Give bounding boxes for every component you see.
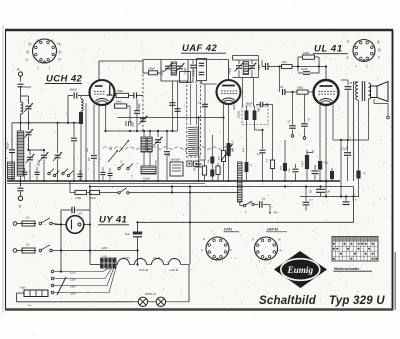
screen capacitor 5T	[326, 67, 348, 95]
svg-text:800pF: 800pF	[70, 89, 78, 92]
rectifier tube UY41	[66, 216, 84, 234]
resistor below L3	[79, 111, 83, 181]
RF coupling capacitor 800pF	[68, 89, 90, 99]
svg-text:ic: ic	[347, 40, 350, 44]
capacitor stub x110	[108, 168, 113, 181]
main chassis bus	[7, 180, 340, 182]
heater chain winding	[116, 259, 189, 265]
wire UAF42 anode to IFT2	[233, 105, 235, 111]
svg-text:1MΩ: 1MΩ	[259, 107, 261, 112]
UY41 anode wire	[55, 224, 67, 226]
coupling capacitor 54pF	[259, 60, 281, 70]
volume potentiometer 0.5M	[222, 105, 235, 182]
Eumig logo diamond	[274, 251, 327, 288]
IF transformer 2 primary lead	[233, 56, 259, 61]
variable capacitor C-RF	[24, 123, 33, 150]
resistor 27k bleeder	[75, 190, 90, 199]
resistor 30k AF stub	[266, 103, 275, 181]
output transformer secondary	[369, 83, 371, 99]
tube socket diagram UAF42 (bottom)	[252, 237, 282, 264]
label 5a7	[131, 176, 134, 182]
switched line B	[70, 181, 75, 193]
svg-text:aₒ: aₒ	[280, 248, 283, 252]
capacitor 800pF left branch	[7, 123, 21, 181]
capacitor N7 on diode lead	[199, 100, 209, 106]
tuning gang dashed shield box	[187, 82, 201, 157]
grid resistor 900	[297, 87, 314, 95]
svg-text:f: f	[49, 66, 50, 70]
heater label UAF42	[170, 268, 179, 272]
capacitor 57 on line	[284, 185, 314, 210]
svg-text:UAF 42: UAF 42	[267, 228, 278, 232]
electrolytic 50+50uF	[170, 159, 183, 177]
value label 30k screen	[289, 168, 291, 172]
IFT2 to detector link 1	[242, 78, 244, 107]
IFT1 variable capacitor 1	[162, 63, 173, 76]
AF line wire	[255, 129, 264, 131]
voltage selector block	[20, 287, 48, 297]
variable resistor arrow a	[108, 150, 118, 162]
svg-text:1kΩ: 1kΩ	[324, 162, 329, 165]
svg-text:UL 41: UL 41	[154, 256, 161, 260]
IFT2 variable capacitor 1	[230, 60, 244, 78]
svg-text:f: f	[367, 65, 368, 69]
IF secondary capacitor pair	[170, 81, 181, 131]
output pentode tube UL41	[314, 80, 339, 105]
svg-text:Schaltbild: Schaltbild	[259, 295, 317, 307]
svg-text:100μF: 100μF	[302, 160, 304, 167]
svg-text:2nF: 2nF	[88, 156, 91, 161]
svg-text:5000: 5000	[195, 165, 197, 171]
svg-text:UCH 42: UCH 42	[46, 74, 83, 85]
output transformer primary	[354, 82, 359, 181]
oscillator coil winding A	[141, 137, 146, 152]
selector wire bottom	[17, 293, 134, 307]
value label 0,1 AVC	[121, 159, 123, 163]
resistor 10k detector 1	[208, 135, 215, 164]
svg-text:1A: 1A	[26, 216, 29, 220]
resistor stub x218	[216, 163, 220, 181]
svg-text:Typ 329 U: Typ 329 U	[329, 295, 385, 307]
variable capacitor oscillator	[154, 130, 163, 181]
osc bus junction line	[104, 130, 177, 132]
svg-text:h: h	[59, 58, 61, 62]
antenna coil L1	[21, 102, 23, 123]
rectifier loop left	[60, 210, 62, 273]
capacitor 2nF at UCH42 cathode	[88, 156, 97, 181]
electrolytic 100uF cathode	[302, 150, 313, 181]
fuse lower 1A	[17, 243, 42, 254]
title Schaltbild	[259, 295, 317, 307]
svg-text:100μF: 100μF	[301, 68, 308, 71]
detector coupling capacitor	[256, 102, 267, 108]
UY41 cathode wire	[84, 224, 90, 226]
svg-text:100pF: 100pF	[185, 67, 187, 74]
svg-text:UAF 42: UAF 42	[182, 43, 217, 54]
trimmer capacitor T2	[38, 150, 49, 181]
resistor 30k lower	[114, 100, 130, 123]
mains terminal upper	[13, 222, 17, 226]
resistor 10k detector 2	[210, 164, 214, 182]
node junction AVC line left	[27, 122, 29, 124]
svg-text:800pF: 800pF	[7, 141, 10, 149]
diode-pentode tube UAF42	[217, 80, 241, 104]
selector arm	[57, 277, 66, 295]
UCH42 grid pin wire	[93, 104, 95, 155]
band switch contact S2b	[127, 164, 133, 170]
trimmer capacitor T3	[53, 122, 62, 181]
svg-text:1,15Ω: 1,15Ω	[101, 248, 107, 250]
heater feed wire	[189, 185, 191, 264]
svg-text:UAF 42: UAF 42	[170, 268, 179, 272]
trimmer row line	[27, 149, 45, 151]
capacitor stub x103	[101, 167, 106, 181]
tone switch capacitor 5T b	[301, 94, 311, 139]
IFT1 coupling box	[180, 72, 191, 83]
svg-text:220V: 220V	[70, 293, 76, 296]
svg-text:150V: 150V	[70, 286, 76, 289]
heater label UL41	[154, 256, 161, 260]
electrolytic 5uF	[125, 221, 142, 265]
antenna series capacitor 500pF	[18, 84, 32, 102]
UL41 plate top wire	[325, 65, 327, 80]
svg-text:50+50μF: 50+50μF	[171, 159, 181, 162]
resistor 1k detector return	[245, 162, 252, 172]
capacitor 5T right	[343, 195, 357, 204]
variable capacitor C-ant (tuning)	[24, 103, 33, 123]
svg-text:UL 41: UL 41	[314, 44, 343, 55]
svg-text:5 T: 5 T	[353, 199, 357, 202]
svg-text:900Ω: 900Ω	[298, 87, 304, 90]
title Typ 329 U	[329, 295, 385, 307]
oscillator feedback cap 150pF	[134, 99, 141, 131]
capacitor 0.1uF AF	[257, 130, 266, 181]
label UY41 socket	[224, 228, 240, 232]
selector contact 220V	[51, 291, 76, 295]
svg-text:240pF: 240pF	[194, 69, 196, 76]
svg-text:5μF: 5μF	[125, 232, 130, 236]
node junction antenna	[19, 122, 21, 124]
svg-text:27kΩ: 27kΩ	[76, 197, 82, 200]
IFT1 variable capacitor 2	[176, 63, 187, 74]
loudspeaker	[371, 82, 389, 102]
band switch contact S2a	[118, 164, 124, 170]
value label 50pF osc	[156, 159, 158, 165]
tone capacitor 0.1uF	[341, 140, 351, 181]
smoothing electrolytic 25uF	[309, 185, 330, 196]
tube socket diagram UY41 (bottom)	[201, 237, 233, 264]
svg-text:UY41: UY41	[224, 228, 232, 232]
UCH42 screen pin wire	[98, 105, 100, 181]
resistor TKO grid UL41	[282, 61, 327, 69]
label UAF 42	[181, 43, 226, 54]
grid capacitor marks	[126, 121, 131, 126]
Wellenschalter table	[332, 237, 378, 262]
capacitor stub x24	[22, 166, 27, 182]
electrolytic 4-5uF	[137, 161, 157, 180]
field coil wire	[358, 100, 360, 171]
svg-text:100pF: 100pF	[148, 67, 155, 70]
trimmer capacitor T1	[26, 150, 35, 181]
svg-text:UY 41: UY 41	[99, 215, 127, 226]
b+ right bend	[300, 139, 359, 198]
terminal lug 2	[194, 161, 199, 166]
heater label UCH42	[139, 268, 149, 272]
rectifier loop right	[89, 187, 91, 263]
dial lamp 1	[133, 297, 148, 306]
Eumig logo text	[287, 265, 314, 275]
doubler capacitor 2x7	[61, 207, 90, 216]
return vertical right	[352, 187, 354, 223]
cathode resistor 1k UL41	[318, 161, 329, 181]
svg-text:W Ω: W Ω	[185, 147, 187, 152]
selector contact 125V	[51, 277, 76, 281]
svg-text:k: k	[378, 56, 380, 60]
label UL 41	[313, 44, 348, 55]
secondary return wire	[341, 99, 369, 140]
svg-text:54pF: 54pF	[259, 64, 261, 70]
border frame right	[392, 30, 394, 310]
band switch contact S1d	[67, 171, 73, 177]
resistor 47k AF grid	[219, 118, 226, 182]
oscillator coil winding B	[147, 137, 152, 152]
svg-text:4-5μF: 4-5μF	[143, 176, 150, 180]
cathode wire UCH42	[85, 103, 87, 181]
switch shaft dashed line	[142, 70, 144, 131]
tuning gang hatching	[188, 127, 199, 156]
mains coil left	[7, 158, 15, 179]
IF transformer 1 primary loop	[143, 60, 161, 74]
label UY 41	[98, 215, 129, 226]
svg-text:a: a	[347, 56, 349, 60]
svg-text:Wellenschalter: Wellenschalter	[334, 267, 360, 271]
label Wellenschalter	[334, 267, 373, 271]
UL41 cathode pin wires	[320, 105, 333, 197]
AVC line (horizontal)	[21, 122, 82, 124]
tone switch capacitor 5T a	[288, 91, 296, 137]
capacitor right of UL41	[341, 80, 353, 140]
svg-text:4kΩ: 4kΩ	[281, 166, 283, 170]
svg-text:30kΩ: 30kΩ	[116, 100, 122, 104]
tube socket diagram UL41 (top-right)	[347, 40, 382, 69]
diode load resistor 1M	[253, 106, 261, 130]
padder capacitor	[139, 116, 148, 125]
IFT1 middle winding	[171, 62, 176, 75]
speaker connection 7 ohm	[374, 99, 394, 119]
border frame right outer segment	[394, 252, 396, 310]
capacitor 50pF	[190, 60, 196, 83]
chassis bus second line	[7, 182, 205, 184]
heater drop wire	[188, 265, 190, 302]
svg-text:7Ω: 7Ω	[391, 106, 394, 109]
filter choke	[238, 162, 242, 202]
triode-hexode tube UCH42	[90, 80, 115, 105]
svg-text:+: +	[137, 161, 139, 165]
svg-text:150pF: 150pF	[138, 103, 141, 110]
IFT2 middle winding	[243, 62, 248, 75]
svg-text:800pF: 800pF	[38, 159, 41, 166]
resistor stub x332	[330, 168, 334, 181]
UAF42 diode pin lead	[205, 84, 217, 160]
resistor on AVC stub	[199, 160, 207, 181]
band switch contact S1c	[62, 169, 68, 175]
block left feed	[90, 262, 101, 265]
value label 0,1 AF	[266, 158, 268, 162]
svg-text:UCH 42: UCH 42	[139, 268, 149, 272]
pickup switch label	[245, 212, 248, 214]
selector riser wires	[68, 268, 116, 293]
gang inner wires	[185, 84, 196, 152]
output transformer core	[362, 81, 364, 101]
grid capacitor 1n7	[278, 65, 297, 95]
capacitor stub x37	[35, 164, 40, 182]
IFT2 to detector link 2	[253, 78, 255, 107]
value label 30k cathode	[87, 148, 89, 152]
svg-text:50pF: 50pF	[156, 159, 158, 165]
wire antenna top link	[21, 96, 29, 104]
border frame outer faint line	[2, 25, 4, 313]
svg-text:125V: 125V	[70, 279, 76, 282]
border frame bottom	[5, 308, 393, 311]
resistor 50 ohm	[356, 171, 364, 197]
negative feedback resistor 1.8k	[297, 51, 320, 68]
dial lamp 2	[148, 297, 189, 306]
capacitor stub x80b	[78, 170, 83, 181]
capacitor osc grid	[134, 93, 143, 99]
resistor 30k (UCH42 osc grid)	[115, 89, 134, 98]
svg-text:10kΩ: 10kΩ	[90, 197, 96, 200]
svg-text:110V: 110V	[70, 272, 76, 275]
svg-text:1n7: 1n7	[280, 86, 285, 89]
border frame top	[5, 29, 393, 32]
UCH42 anode pin wire	[105, 105, 107, 131]
fuse upper 1A	[17, 216, 42, 227]
earth capacitor	[18, 181, 24, 196]
UAF42 grid return wire	[118, 104, 225, 163]
oscillator coil L3	[81, 96, 83, 112]
negative feedback capacitor 100uF	[298, 67, 319, 75]
svg-text:μF: μF	[327, 190, 330, 194]
Eumig logo ellipse	[281, 259, 320, 281]
wire osc coils	[144, 131, 150, 166]
svg-text:100pF: 100pF	[162, 69, 164, 76]
value label 4,7k det	[243, 147, 245, 152]
svg-text:1,8kΩ: 1,8kΩ	[303, 51, 310, 55]
pickup terminal PU	[269, 205, 278, 215]
svg-text:f: f	[356, 65, 357, 69]
IF transformer 1 can	[161, 60, 188, 82]
label UCH 42	[45, 74, 83, 85]
mains switch lower	[41, 245, 138, 252]
svg-text:UY 41: UY 41	[123, 256, 131, 260]
wire tone cap link	[333, 139, 349, 141]
label UAF42 socket	[266, 228, 287, 232]
antenna terminal A	[17, 68, 23, 82]
band switch contact S1b	[53, 171, 59, 177]
diode load resistor 200k	[239, 106, 249, 181]
antenna coupling coil L2 (long winding)	[17, 123, 24, 181]
heater label UY41	[123, 256, 131, 260]
mechanical tuning link (wavy)	[103, 147, 235, 149]
tube socket diagram UCH42 (top-left)	[26, 39, 63, 71]
svg-text:MΩ: MΩ	[233, 148, 235, 152]
selector contact 110V	[51, 270, 76, 274]
bus junction dots	[20, 180, 328, 182]
heater terminal block	[101, 256, 117, 268]
svg-text:1kΩ: 1kΩ	[282, 61, 287, 64]
svg-text:4 5Ω: 4 5Ω	[102, 256, 107, 258]
dial lamp label	[145, 292, 156, 296]
capacitor on AVC drop	[71, 122, 77, 181]
capacitor stub x295	[293, 164, 299, 181]
border frame left	[5, 30, 7, 309]
capacitor 1nF osc	[164, 130, 171, 181]
terminal lug 1	[187, 161, 192, 166]
shielded capacitor 240pF	[194, 59, 207, 85]
svg-text:36V/0,1A: 36V/0,1A	[145, 292, 156, 296]
mains switch upper	[41, 218, 62, 226]
svg-text:30kΩ: 30kΩ	[117, 89, 123, 93]
svg-text:200kΩ: 200kΩ	[239, 111, 241, 118]
svg-text:3T: 3T	[350, 82, 353, 85]
svg-text:Trafo: Trafo	[20, 287, 26, 290]
earth terminal E	[18, 196, 22, 208]
rectifier output line	[89, 185, 354, 187]
svg-text:1A: 1A	[26, 243, 29, 247]
detector dashed shield box	[242, 106, 268, 125]
resistor 100pF primary	[148, 60, 161, 82]
capacitor stub x315	[312, 165, 319, 181]
lower rail wire	[138, 221, 354, 223]
resistor 10k bleeder	[90, 190, 118, 199]
mains switch on line B	[118, 188, 240, 194]
band switch contact S1a	[48, 169, 54, 175]
svg-text:5T: 5T	[262, 198, 265, 201]
pickup switch	[240, 201, 254, 207]
mains terminal lower	[13, 249, 17, 253]
svg-text:500pF: 500pF	[24, 85, 32, 89]
svg-text:¼: ¼	[35, 164, 37, 167]
svg-text:2x7: 2x7	[77, 212, 83, 216]
line linking stub x172	[171, 185, 173, 193]
resistor screen feed	[281, 140, 288, 181]
capacitor 5000pF AVC	[195, 164, 202, 181]
svg-text:1nF: 1nF	[168, 152, 171, 157]
wire to UAF42 top	[188, 60, 229, 81]
svg-text:a: a	[52, 39, 54, 43]
svg-text:240pF: 240pF	[230, 67, 232, 74]
svg-text:g₂: g₂	[279, 237, 282, 241]
wire grid branch	[67, 96, 69, 124]
svg-text:Eumig: Eumig	[287, 265, 314, 275]
svg-text:0,1μF: 0,1μF	[341, 148, 348, 151]
pickup capacitor 57	[254, 198, 270, 208]
IFT2 variable capacitor 2	[233, 56, 259, 78]
plate supply line top bus	[99, 61, 143, 80]
svg-text:+a: +a	[57, 42, 61, 46]
value label 1k AVC	[111, 146, 113, 150]
selector contact 150V	[51, 284, 76, 288]
variable resistor arrow b	[119, 140, 129, 152]
label 300pF detector	[246, 102, 253, 105]
svg-text:300pF: 300pF	[246, 102, 253, 105]
value label 100k oscillator	[133, 121, 135, 127]
svg-text:f: f	[38, 66, 39, 70]
